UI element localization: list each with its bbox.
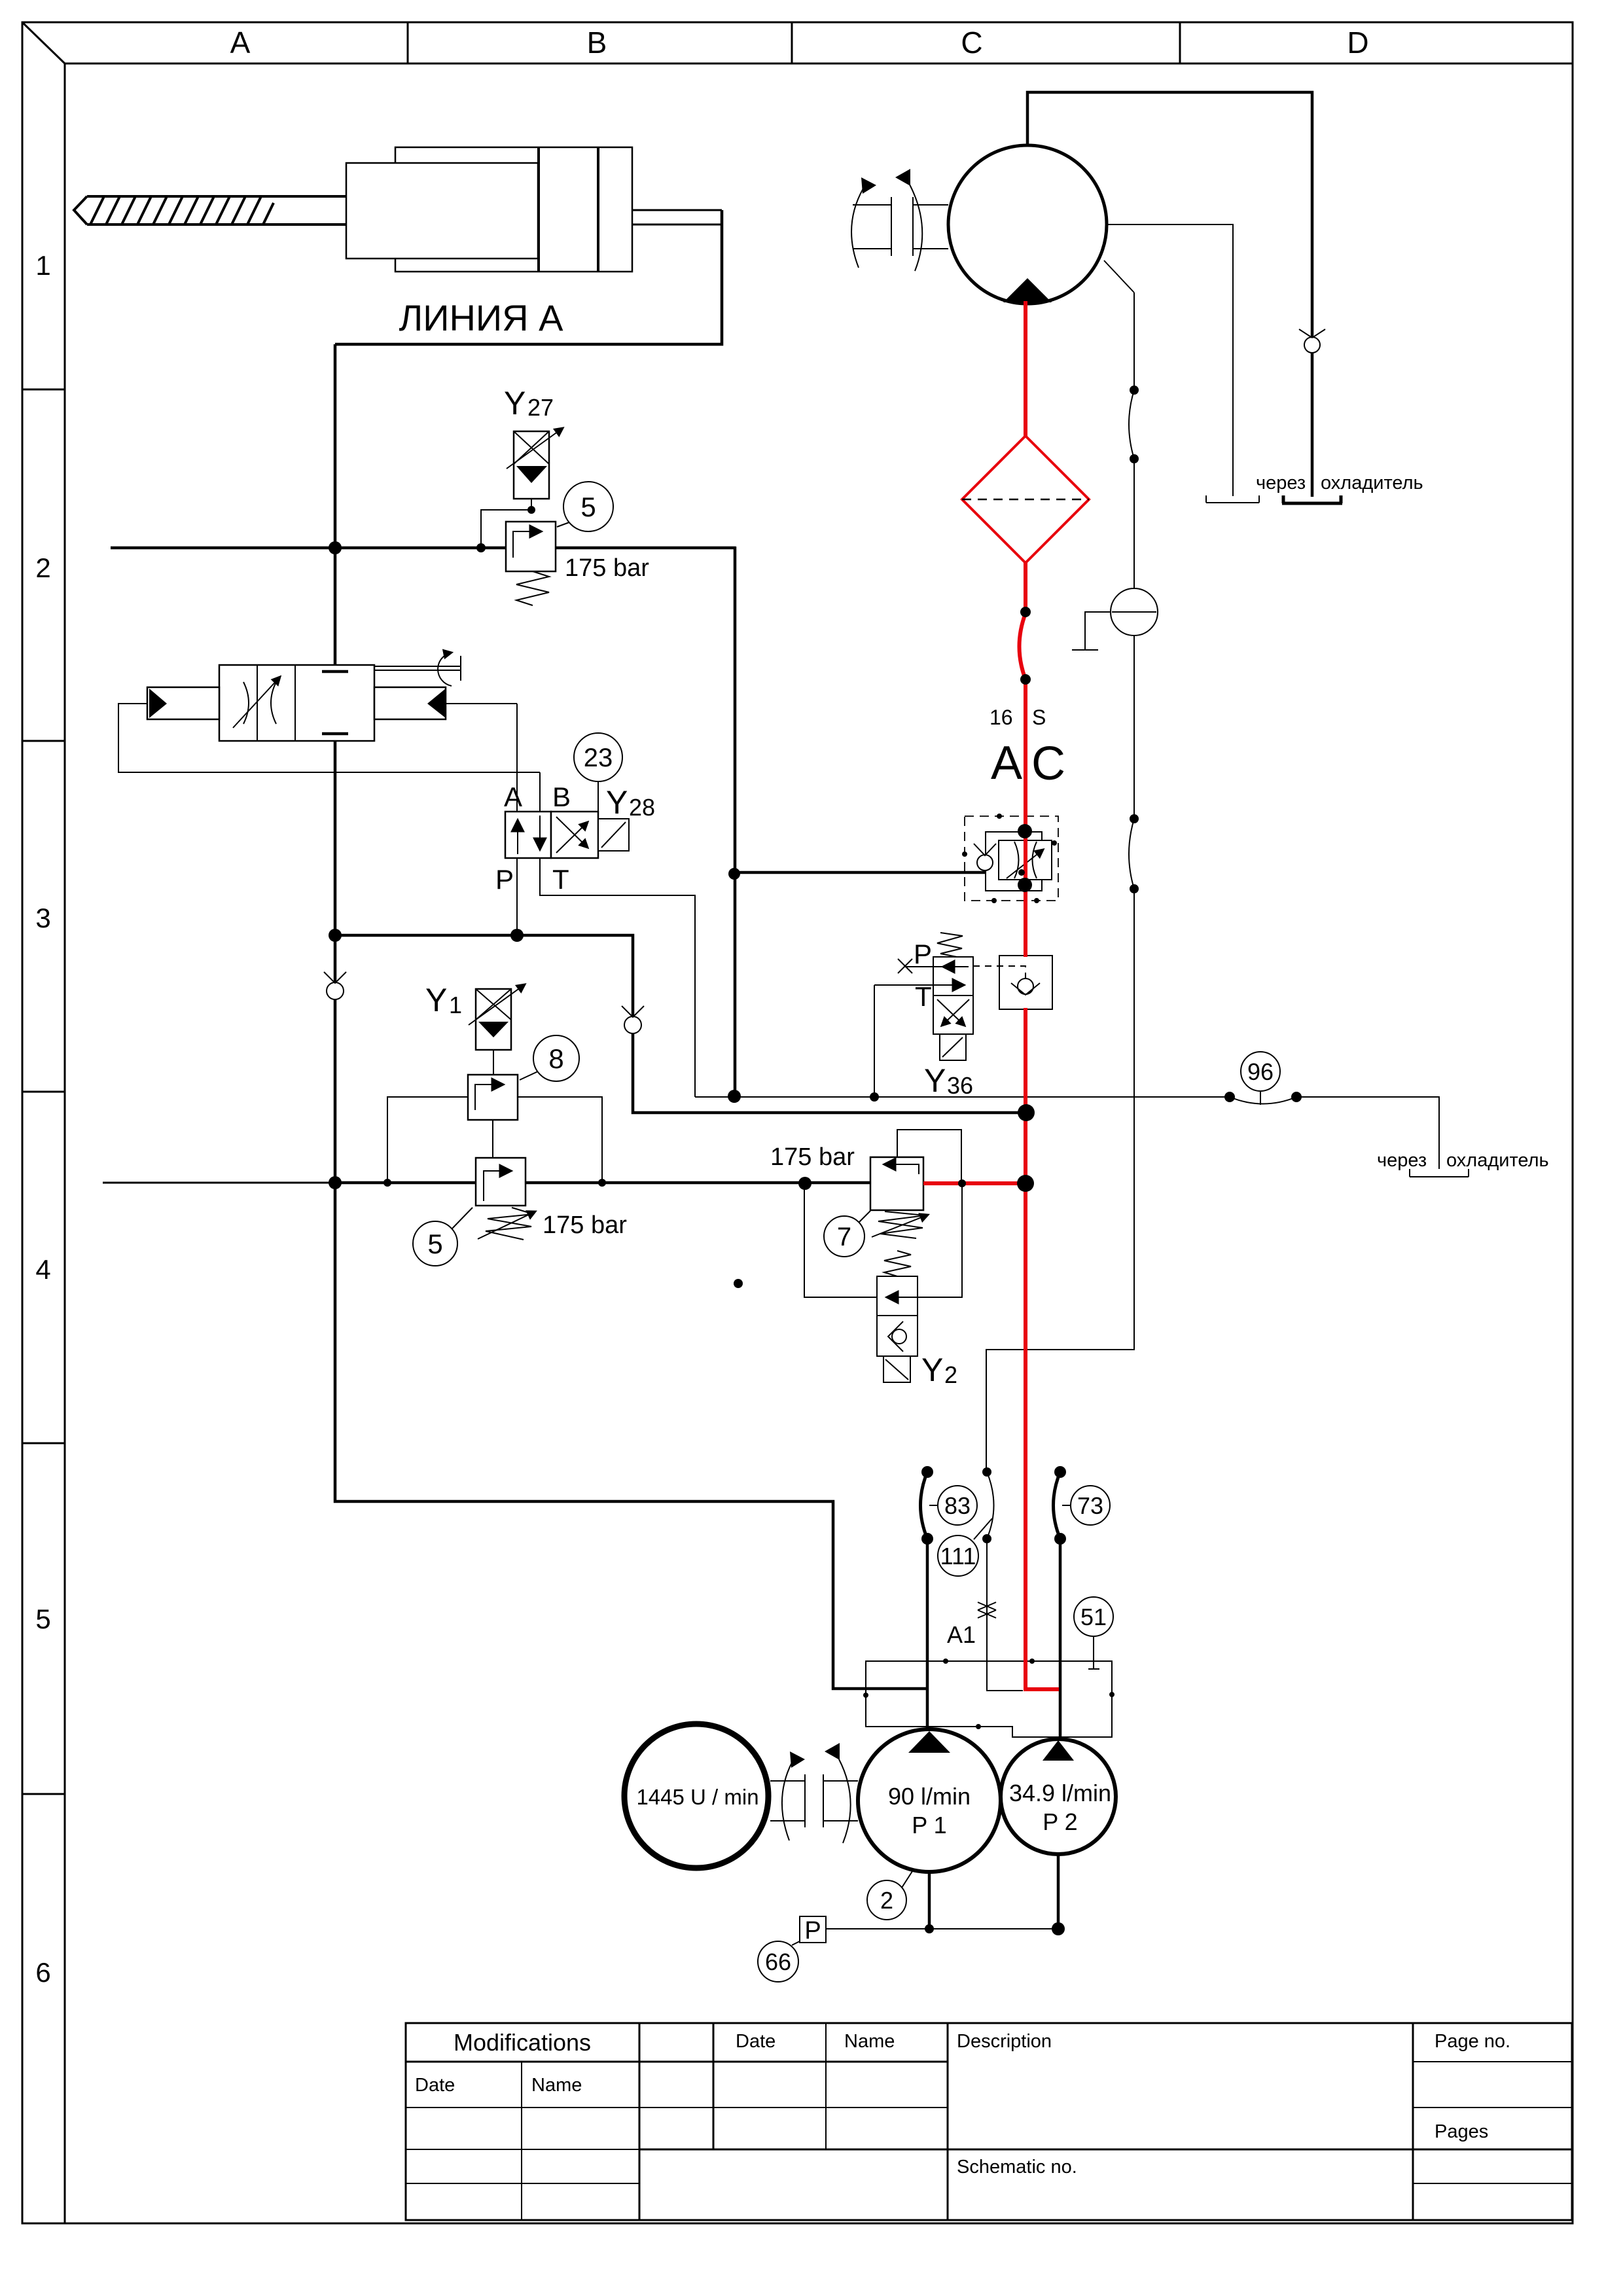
svg-text:23: 23 bbox=[584, 744, 613, 772]
svg-text:2: 2 bbox=[35, 552, 50, 583]
svg-text:1445 U / min: 1445 U / min bbox=[636, 1785, 758, 1809]
hose on drain x1733 lower bbox=[1129, 819, 1134, 889]
svg-text:83: 83 bbox=[944, 1492, 971, 1519]
valve Y28: 4/2 solenoid directional bbox=[505, 812, 629, 858]
wire: balloon 51 stem bbox=[1088, 1636, 1099, 1669]
svg-text:P 2: P 2 bbox=[1043, 1808, 1077, 1835]
wire: pump drain bottom bbox=[826, 1928, 1058, 1929]
wire: branch to flow control y1333 bbox=[734, 871, 1022, 874]
balloon 5 bbox=[557, 482, 613, 531]
pump unit frame bbox=[866, 1661, 1112, 1737]
balloon 111 bbox=[938, 1518, 992, 1576]
balloon 66 bbox=[758, 1941, 800, 1982]
P measuring box bbox=[800, 1916, 826, 1945]
svg-text:Y: Y bbox=[425, 982, 447, 1018]
balloon 23 bbox=[574, 733, 622, 781]
svg-text:66: 66 bbox=[765, 1948, 791, 1975]
svg-text:P: P bbox=[914, 939, 932, 969]
wire: drain x1733 bbox=[986, 293, 1134, 1472]
balloon 7 bbox=[824, 1211, 870, 1257]
balloon 8 bbox=[520, 1035, 579, 1081]
svg-text:C: C bbox=[961, 26, 982, 60]
svg-text:28: 28 bbox=[629, 794, 655, 821]
wire: motor top to cooler bbox=[1027, 92, 1312, 497]
svg-text:охладитель: охладитель bbox=[1446, 1150, 1549, 1171]
wire: Y1 stem bbox=[493, 1050, 494, 1075]
svg-text:34.9 l/min: 34.9 l/min bbox=[1009, 1780, 1111, 1806]
svg-text:3: 3 bbox=[35, 903, 50, 933]
svg-text:51: 51 bbox=[1080, 1604, 1107, 1630]
red pressure line: hose to Y36 check bbox=[1024, 679, 1027, 957]
wire: B riser x825 bbox=[539, 772, 541, 812]
flow control valve block (dashed) bbox=[962, 814, 1058, 903]
wire: manifold line y1429 bbox=[334, 935, 1026, 1113]
hose 83 bbox=[921, 1472, 928, 1539]
pump P2 bbox=[1001, 1739, 1116, 1854]
wire: balloon 23 stem bbox=[597, 781, 599, 812]
wire: relief 8 to relief 5 stem bbox=[492, 1120, 493, 1158]
svg-text:A: A bbox=[991, 737, 1022, 789]
plug symbol on A1 line bbox=[978, 1602, 996, 1618]
svg-text:5: 5 bbox=[580, 492, 596, 522]
wire: relief 8 left branch bbox=[387, 1097, 468, 1183]
svg-text:T: T bbox=[552, 864, 569, 895]
valve Y1: proportional pressure pilot bbox=[469, 984, 525, 1050]
svg-text:Schematic no.: Schematic no. bbox=[957, 2157, 1077, 2178]
svg-text:111: 111 bbox=[940, 1543, 976, 1570]
red hose bbox=[1020, 613, 1026, 679]
cylinder: gland sleeve bbox=[346, 163, 538, 259]
balloon 2 bbox=[867, 1869, 914, 1920]
wire: P1 bottom stem bbox=[928, 1872, 931, 1929]
pump shaft couplings bbox=[770, 1743, 858, 1843]
wire: A-port riser x790 bbox=[516, 704, 518, 935]
svg-text:2: 2 bbox=[880, 1887, 893, 1914]
wire: balloon 96 stem bbox=[1260, 1091, 1261, 1105]
svg-text:Date: Date bbox=[415, 2075, 455, 2096]
svg-text:D: D bbox=[1347, 26, 1368, 60]
wire: prop valve feedback loop bbox=[118, 704, 540, 772]
svg-text:Name: Name bbox=[844, 2031, 895, 2052]
wire: P2 suction bbox=[1059, 1539, 1062, 1740]
cylinder: threaded rod bbox=[74, 196, 346, 224]
wire: Y27 drain bbox=[481, 499, 531, 548]
cylinder: piston bbox=[539, 147, 598, 272]
svg-text:Name: Name bbox=[531, 2075, 582, 2096]
svg-text:Y: Y bbox=[924, 1062, 946, 1099]
svg-text:Page no.: Page no. bbox=[1435, 2031, 1510, 2052]
wire: valve 7 pilot loop bbox=[897, 1130, 961, 1183]
hydraulic motor bbox=[948, 145, 1107, 304]
relief valve 7 bbox=[870, 1157, 928, 1238]
svg-text:A1: A1 bbox=[947, 1621, 976, 1648]
svg-text:Y: Y bbox=[606, 784, 628, 821]
check valve on x967 bbox=[622, 1006, 644, 1033]
wire: Y2 left pilot from dot x1229 bbox=[804, 1183, 877, 1297]
svg-text:C: C bbox=[1031, 738, 1065, 790]
title block bbox=[406, 2023, 1572, 2220]
motor shaft couplings bbox=[851, 169, 948, 271]
svg-text:P: P bbox=[495, 864, 514, 895]
check valve on x512 bbox=[324, 972, 346, 999]
svg-text:73: 73 bbox=[1077, 1492, 1103, 1519]
svg-text:A: A bbox=[230, 26, 251, 60]
breather check on cooler line bbox=[1299, 329, 1325, 353]
wire: gauge tap bbox=[1072, 612, 1110, 650]
svg-text:4: 4 bbox=[35, 1254, 50, 1285]
hose 73 bbox=[1054, 1472, 1061, 1539]
wire: line y1807 thick bbox=[335, 1181, 925, 1185]
balloon 73 bbox=[1062, 1486, 1110, 1525]
svg-text:P: P bbox=[804, 1917, 821, 1945]
svg-text:175 bar: 175 bar bbox=[565, 554, 649, 582]
tank: drain via cooler lower bbox=[1410, 1169, 1469, 1177]
wire: motor right port to tank bbox=[1106, 224, 1233, 496]
relief valve 5 (y1807) bbox=[476, 1158, 535, 1240]
svg-text:ЛИНИЯ А: ЛИНИЯ А bbox=[399, 297, 563, 338]
svg-text:Description: Description bbox=[957, 2031, 1052, 2052]
wire: P2 bottom stem bbox=[1057, 1854, 1060, 1929]
svg-text:96: 96 bbox=[1247, 1058, 1274, 1085]
svg-text:S: S bbox=[1032, 706, 1046, 729]
svg-text:через: через bbox=[1256, 473, 1306, 493]
wire: line y1807 thin left bbox=[103, 1182, 335, 1184]
svg-text:Date: Date bbox=[736, 2031, 776, 2052]
svg-text:через: через bbox=[1377, 1150, 1427, 1171]
electric motor 1445 bbox=[624, 1724, 768, 1868]
svg-text:Y: Y bbox=[921, 1352, 943, 1388]
wire: pressure line y837 bbox=[111, 547, 736, 550]
valve Y2: solenoid 2/2 bbox=[877, 1251, 918, 1382]
wire: line A main vertical x512 upper bbox=[322, 344, 348, 672]
tank: thin (via cooler upper) bbox=[1206, 495, 1259, 503]
pressure gauge bbox=[1111, 588, 1158, 636]
red pressure line: motor to diamond bbox=[1024, 301, 1027, 437]
svg-text:A: A bbox=[504, 781, 522, 812]
valve Y27: proportional pressure relief pilot bbox=[507, 428, 563, 499]
pilot: right solenoid of prop valve bbox=[374, 687, 446, 719]
filter/cooler diamond bbox=[962, 436, 1089, 563]
wire: P1 suction bbox=[926, 1539, 929, 1731]
svg-text:5: 5 bbox=[35, 1604, 50, 1634]
svg-text:1: 1 bbox=[35, 250, 50, 281]
wire: relief 8 right branch bbox=[518, 1097, 602, 1183]
red branch from valve 7 bbox=[923, 1181, 1026, 1185]
hose on drain x1733 upper bbox=[1129, 390, 1134, 459]
balloon 83 bbox=[929, 1486, 977, 1525]
wire: drain line y1676 bbox=[695, 1097, 1439, 1169]
svg-text:2: 2 bbox=[944, 1361, 957, 1388]
svg-text:Modifications: Modifications bbox=[454, 2029, 591, 2056]
svg-text:Pages: Pages bbox=[1435, 2121, 1488, 2142]
hose 96 bbox=[1230, 1097, 1296, 1104]
svg-text:90 l/min: 90 l/min bbox=[888, 1783, 971, 1810]
wire: cylinder rod link bbox=[632, 210, 722, 224]
svg-text:B: B bbox=[552, 781, 571, 812]
svg-text:36: 36 bbox=[947, 1072, 973, 1099]
red pressure line: diamond to hose bbox=[1024, 562, 1027, 613]
wire: line A down from cylinder bbox=[335, 210, 722, 344]
wire: branch x1123 down bbox=[734, 547, 737, 1096]
svg-text:175 bar: 175 bar bbox=[770, 1143, 855, 1171]
svg-text:B: B bbox=[587, 26, 607, 60]
valve Y36: solenoid 2/2 with check bbox=[874, 933, 1052, 1097]
wire: T drain of Y28 bbox=[540, 858, 695, 1097]
svg-text:27: 27 bbox=[527, 394, 554, 421]
pilot: left solenoid of prop valve bbox=[147, 687, 219, 719]
tank: thick (motor cooler) bbox=[1282, 495, 1342, 503]
svg-text:16: 16 bbox=[990, 706, 1013, 729]
balloon 96 bbox=[1241, 1052, 1280, 1091]
hose 111 bbox=[987, 1472, 994, 1539]
wire: A1 line to pump bbox=[987, 1539, 1023, 1691]
svg-text:6: 6 bbox=[35, 1957, 50, 1988]
pump P1 bbox=[858, 1729, 1001, 1872]
svg-text:175 bar: 175 bar bbox=[543, 1211, 627, 1239]
red pressure line: Y36 to pumps bbox=[1026, 1008, 1059, 1689]
svg-text:7: 7 bbox=[837, 1223, 851, 1251]
svg-text:охладитель: охладитель bbox=[1321, 473, 1423, 493]
balloon 51 bbox=[1074, 1597, 1113, 1636]
wire: line A main vertical x512 lower bbox=[322, 734, 927, 1689]
svg-text:Y: Y bbox=[504, 385, 526, 422]
cylinder: barrel bbox=[395, 147, 632, 272]
svg-text:P 1: P 1 bbox=[912, 1812, 946, 1839]
balloon 5b bbox=[413, 1208, 473, 1266]
valve: proportional flow control (2-pos) bbox=[219, 665, 374, 741]
prop valve lever with rotation arrow bbox=[374, 653, 461, 686]
wire: Y2 right pilot from red line bbox=[918, 1183, 962, 1297]
svg-text:1: 1 bbox=[449, 992, 462, 1018]
svg-text:8: 8 bbox=[548, 1043, 563, 1074]
relief valve 5 (y837) bbox=[506, 522, 556, 605]
svg-text:T: T bbox=[915, 981, 932, 1012]
relief valve 8 bbox=[468, 1075, 518, 1120]
wire: motor case drain diagonal bbox=[1104, 260, 1134, 293]
svg-text:5: 5 bbox=[427, 1229, 442, 1259]
